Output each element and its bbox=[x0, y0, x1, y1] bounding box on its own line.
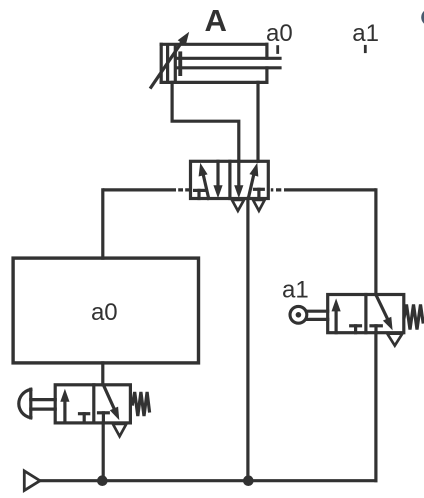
svg-text:a1: a1 bbox=[352, 20, 379, 47]
svg-text:a0: a0 bbox=[91, 299, 118, 326]
svg-text:a1: a1 bbox=[282, 277, 309, 304]
svg-text:A: A bbox=[205, 3, 227, 38]
svg-text:a0: a0 bbox=[266, 20, 293, 47]
